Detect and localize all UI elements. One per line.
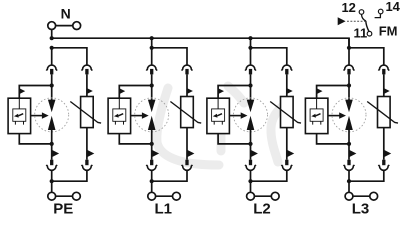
wire PE monitor branch top bbox=[19, 86, 51, 99]
spark gap L3 bbox=[345, 100, 353, 130]
terminal circle N right bbox=[73, 22, 81, 30]
svg-text:L2: L2 bbox=[253, 200, 271, 217]
wire PE varistor leg lower bbox=[86, 128, 88, 160]
wire L2 monitor branch bottom bbox=[218, 134, 250, 144]
wire L1 monitor branch bottom bbox=[119, 134, 151, 144]
wire L3 varistor leg return bbox=[349, 170, 384, 181]
junction PE monitor tap bbox=[50, 83, 54, 87]
wire L1 leg to terminal bbox=[151, 170, 153, 192]
thermal disconnect flag L3 monitor bbox=[317, 88, 323, 94]
svg-text:11: 11 bbox=[354, 26, 368, 41]
wire N terminal link bbox=[56, 25, 73, 27]
wire PE top cross to varistor leg bbox=[52, 48, 87, 65]
svg-text:L3: L3 bbox=[352, 200, 370, 217]
wire L1 spark-gap leg lower bbox=[151, 130, 153, 160]
plug-in connection (socket+pin) L1 varistor leg bbox=[182, 65, 193, 74]
junction L3 legs join bbox=[347, 179, 351, 183]
junction L3 monitor return bbox=[347, 142, 351, 146]
contact point 12 bbox=[359, 10, 364, 15]
spark gap enclosure (dashed) L3 bbox=[332, 98, 366, 132]
contact point 11 bbox=[367, 31, 372, 36]
monitoring device box L2 bbox=[207, 98, 230, 133]
thermal disconnect flag PE monitor bbox=[19, 88, 25, 94]
wire L3 varistor leg upper bbox=[383, 74, 385, 96]
spark gap enclosure (dashed) PE bbox=[35, 98, 69, 132]
wire N drop bbox=[51, 30, 53, 39]
thermal disconnect flag L3 spark-gap leg bottom bbox=[349, 150, 356, 157]
thermal disconnect flag PE spark-gap leg bottom bbox=[52, 150, 59, 157]
thermal disconnect flag PE varistor bottom bbox=[87, 150, 94, 157]
watermark logo bbox=[157, 86, 288, 165]
thermal disconnect flag L2 varistor bottom bbox=[287, 150, 294, 157]
contact point 14 bbox=[378, 9, 383, 14]
varistor L3 bbox=[367, 97, 398, 128]
terminal circle L2 right bbox=[271, 192, 279, 200]
varistor L1 bbox=[170, 97, 201, 128]
wire L3 varistor leg lower bbox=[383, 128, 385, 160]
wire L3 spark-gap leg lower bbox=[348, 130, 350, 160]
wire L2 spark-gap leg upper bbox=[250, 74, 252, 100]
wire L3 top cross to varistor leg bbox=[349, 48, 384, 65]
wire L1 monitor branch top bbox=[119, 86, 151, 99]
terminal circle PE left bbox=[48, 192, 56, 200]
wire L3 leg to terminal bbox=[348, 170, 350, 192]
wire L3 bus drop bbox=[348, 38, 350, 48]
plug-in connection (pin+socket) L1 spark-gap leg bbox=[146, 160, 157, 171]
terminal circle N left bbox=[48, 22, 56, 30]
FM actuation dashed link bbox=[347, 20, 365, 22]
junction PE legs join bbox=[50, 179, 54, 183]
thermal disconnect flag L1 varistor top bbox=[187, 88, 193, 94]
junction L2 monitor return bbox=[248, 142, 252, 146]
junction L3 top split bbox=[347, 46, 351, 50]
wire L1 terminal link bbox=[156, 195, 173, 197]
wire L2 top cross to varistor leg bbox=[251, 48, 287, 65]
thermal disconnect flag L1 varistor bottom bbox=[187, 150, 194, 157]
svg-text:PE: PE bbox=[53, 200, 73, 217]
terminal circle PE right bbox=[73, 192, 81, 200]
svg-text:L1: L1 bbox=[154, 200, 172, 217]
plug-in connection (pin+socket) L2 spark-gap leg bbox=[245, 160, 256, 171]
spark gap PE bbox=[48, 100, 56, 130]
trigger arrow PE bbox=[31, 112, 49, 118]
thermal disconnect flag L3 varistor bottom bbox=[384, 150, 391, 157]
wire L1 spark-gap leg upper bbox=[151, 74, 153, 100]
plug-in connection (pin+socket) L2 varistor leg bbox=[282, 160, 293, 171]
wire L1 bus drop bbox=[151, 38, 153, 48]
svg-text:14: 14 bbox=[385, 0, 400, 14]
monitoring device box PE bbox=[8, 98, 31, 133]
wire L1 top cross to varistor leg bbox=[152, 48, 187, 65]
wire L2 varistor leg return bbox=[251, 170, 287, 181]
wire L2 varistor leg lower bbox=[286, 128, 288, 160]
varistor PE bbox=[70, 97, 101, 128]
thermal disconnect flag L1 monitor bbox=[119, 88, 125, 94]
terminal circle L2 left bbox=[247, 192, 255, 200]
thermal disconnect flag L2 varistor top bbox=[287, 88, 293, 94]
wire L3 monitor branch top bbox=[317, 86, 349, 99]
wire L3 terminal link bbox=[353, 195, 370, 197]
spark gap L2 bbox=[247, 100, 255, 130]
FM actuation arrow bbox=[338, 17, 346, 25]
wire PE leg to terminal bbox=[51, 170, 53, 192]
wire N bus bbox=[52, 38, 349, 48]
junction L2 top split bbox=[248, 46, 252, 50]
plug-in connection (socket+pin) L3 spark-gap leg bbox=[344, 65, 355, 74]
plug-in connection (pin+socket) PE varistor leg bbox=[82, 160, 93, 171]
terminal circle L1 left bbox=[148, 192, 156, 200]
junction bus/L2 tap bbox=[248, 36, 252, 40]
wire L2 spark-gap leg top bbox=[250, 48, 252, 65]
plug-in connection (socket+pin) L3 varistor leg bbox=[379, 65, 390, 74]
plug-in connection (socket+pin) L2 spark-gap leg bbox=[245, 65, 256, 74]
junction L3 monitor tap bbox=[347, 83, 351, 87]
junction bus/L1 tap bbox=[150, 36, 154, 40]
junction L2 monitor tap bbox=[248, 83, 252, 87]
wire L1 varistor leg lower bbox=[186, 128, 188, 160]
wire L2 spark-gap leg lower bbox=[250, 130, 252, 160]
svg-text:12: 12 bbox=[341, 0, 355, 15]
terminal circle L3 left bbox=[345, 192, 353, 200]
plug-in connection (socket+pin) L2 varistor leg bbox=[282, 65, 293, 74]
wire L3 spark-gap leg top bbox=[348, 48, 350, 65]
thermal disconnect flag L2 monitor bbox=[218, 88, 224, 94]
plug-in connection (pin+socket) PE spark-gap leg bbox=[46, 160, 57, 171]
wire PE terminal link bbox=[56, 195, 73, 197]
thermal disconnect flag L3 varistor top bbox=[384, 88, 390, 94]
wire PE spark-gap leg lower bbox=[51, 130, 53, 160]
contact 14 hook bbox=[375, 14, 381, 18]
wire L1 varistor leg upper bbox=[186, 74, 188, 96]
contact 12 hook bbox=[362, 14, 366, 20]
wire L3 monitor branch bottom bbox=[317, 134, 349, 144]
trigger arrow L2 bbox=[229, 112, 247, 118]
monitoring device box L3 bbox=[305, 98, 328, 133]
junction L1 monitor return bbox=[150, 142, 154, 146]
svg-text:N: N bbox=[61, 5, 71, 21]
wire L1 spark-gap leg top bbox=[151, 48, 153, 65]
wire PE spark-gap leg upper bbox=[51, 74, 53, 100]
junction L1 monitor tap bbox=[150, 83, 154, 87]
varistor L2 bbox=[270, 97, 301, 128]
trigger arrow L3 bbox=[328, 112, 346, 118]
junction bus/N bbox=[50, 36, 54, 40]
wire L3 spark-gap leg upper bbox=[348, 74, 350, 100]
plug-in connection (socket+pin) PE varistor leg bbox=[82, 65, 93, 74]
junction L1 legs join bbox=[150, 179, 154, 183]
thermal disconnect flag L2 spark-gap leg bottom bbox=[251, 150, 258, 157]
junction PE monitor return bbox=[50, 142, 54, 146]
wire PE monitor branch bottom bbox=[19, 134, 51, 144]
wire PE spark-gap leg top bbox=[51, 48, 53, 65]
plug-in connection (pin+socket) L3 spark-gap leg bbox=[344, 160, 355, 171]
wire L1 varistor leg return bbox=[152, 170, 187, 181]
wire PE varistor leg upper bbox=[86, 74, 88, 96]
wire PE varistor leg return bbox=[52, 170, 87, 181]
wire L2 varistor leg upper bbox=[286, 74, 288, 96]
terminal circle L1 right bbox=[173, 192, 181, 200]
trigger arrow L1 bbox=[131, 112, 149, 118]
plug-in connection (pin+socket) L3 varistor leg bbox=[379, 160, 390, 171]
spark gap enclosure (dashed) L1 bbox=[135, 98, 169, 132]
junction PE top split bbox=[50, 46, 54, 50]
spark gap L1 bbox=[148, 100, 156, 130]
wire L2 leg to terminal bbox=[250, 170, 252, 192]
monitoring device box L1 bbox=[108, 98, 131, 133]
wire L2 monitor branch top bbox=[218, 86, 250, 99]
junction L2 legs join bbox=[248, 179, 252, 183]
terminal circle L3 right bbox=[370, 192, 378, 200]
plug-in connection (socket+pin) L1 spark-gap leg bbox=[146, 65, 157, 74]
plug-in connection (pin+socket) L1 varistor leg bbox=[182, 160, 193, 171]
thermal disconnect flag PE varistor top bbox=[87, 88, 93, 94]
svg-text:FM: FM bbox=[379, 23, 398, 38]
wire L2 terminal link bbox=[254, 195, 271, 197]
junction L1 top split bbox=[150, 46, 154, 50]
plug-in connection (socket+pin) PE spark-gap leg bbox=[46, 65, 57, 74]
contact lever 11-12 bbox=[366, 21, 369, 32]
spark gap enclosure (dashed) L2 bbox=[234, 98, 268, 132]
wire L2 bus drop bbox=[250, 38, 252, 48]
thermal disconnect flag L1 spark-gap leg bottom bbox=[152, 150, 159, 157]
